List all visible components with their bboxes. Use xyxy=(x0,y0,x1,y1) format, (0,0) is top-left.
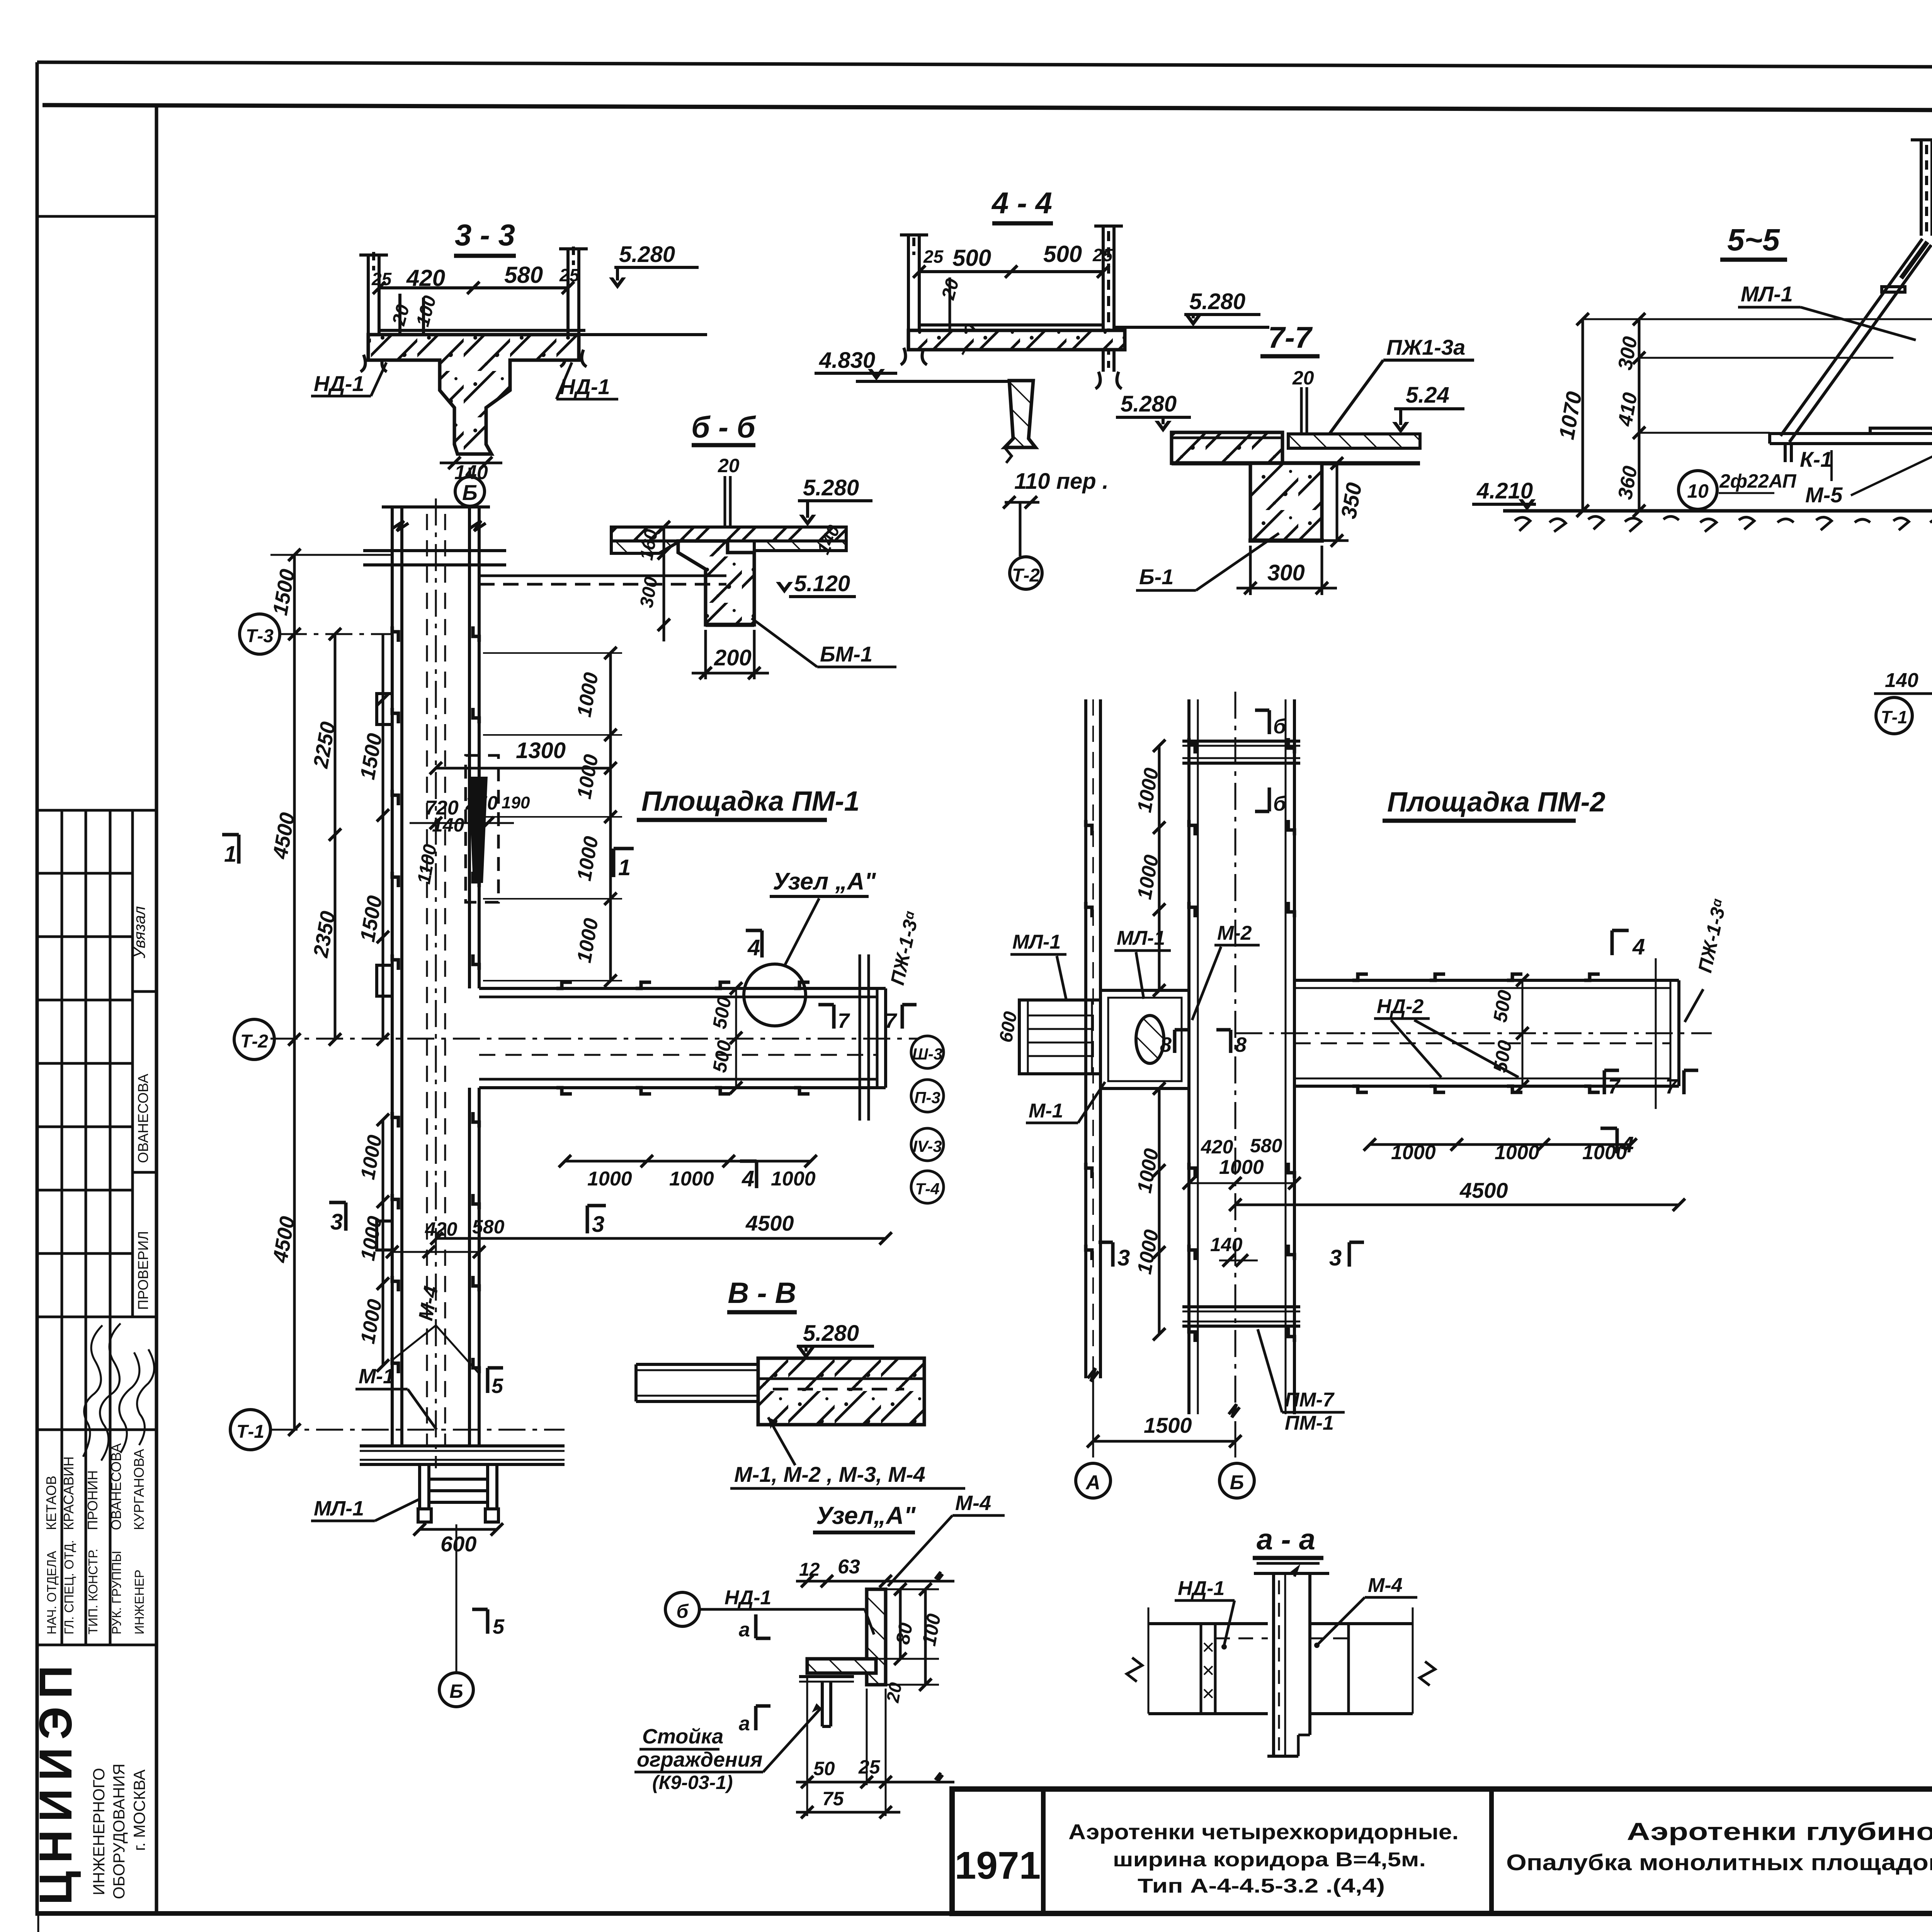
svg-text:Т-1: Т-1 xyxy=(236,1422,264,1442)
svg-text:А: А xyxy=(1085,1471,1100,1494)
svg-text:190: 190 xyxy=(502,793,530,812)
svg-text:ширина коридора В=4,5м.: ширина коридора В=4,5м. xyxy=(1113,1849,1426,1871)
svg-text:ОВАНЕСОВА: ОВАНЕСОВА xyxy=(108,1443,124,1530)
svg-text:420: 420 xyxy=(425,1218,457,1240)
svg-text:7: 7 xyxy=(838,1009,850,1032)
svg-text:Б: Б xyxy=(449,1680,463,1702)
svg-text:580: 580 xyxy=(1250,1135,1282,1156)
svg-text:Б: Б xyxy=(462,480,478,505)
svg-text:М-5: М-5 xyxy=(1805,483,1843,507)
svg-text:М-4: М-4 xyxy=(1368,1574,1403,1597)
svg-text:1: 1 xyxy=(224,842,236,867)
svg-text:Стойка: Стойка xyxy=(642,1725,723,1748)
svg-text:Б-1: Б-1 xyxy=(1139,565,1173,589)
svg-text:25: 25 xyxy=(559,265,580,285)
svg-text:5.120: 5.120 xyxy=(794,571,850,596)
svg-text:М-4: М-4 xyxy=(955,1492,991,1515)
svg-text:ГЛ. СПЕЦ. ОТД.: ГЛ. СПЕЦ. ОТД. xyxy=(62,1540,76,1634)
svg-text:НАЧ. ОТДЕЛА: НАЧ. ОТДЕЛА xyxy=(44,1551,59,1634)
svg-text:20: 20 xyxy=(718,455,740,476)
svg-text:20: 20 xyxy=(1292,367,1314,389)
svg-text:а: а xyxy=(739,1619,750,1641)
svg-text:75: 75 xyxy=(822,1788,844,1810)
svg-text:Узел „А": Узел „А" xyxy=(773,868,876,895)
svg-text:Т-2: Т-2 xyxy=(240,1031,268,1052)
svg-text:10: 10 xyxy=(1687,480,1709,502)
svg-text:7: 7 xyxy=(885,1009,898,1032)
svg-text:ПРОНИН: ПРОНИН xyxy=(85,1470,100,1530)
svg-text:1000: 1000 xyxy=(669,1168,714,1190)
svg-text:б: б xyxy=(677,1600,689,1622)
svg-text:Т-3: Т-3 xyxy=(246,626,274,646)
svg-text:г. МОСКВА: г. МОСКВА xyxy=(130,1769,148,1851)
svg-text:КУРГАНОВА: КУРГАНОВА xyxy=(131,1449,147,1530)
svg-text:80: 80 xyxy=(892,1621,917,1646)
svg-text:IV-3: IV-3 xyxy=(913,1137,942,1155)
svg-text:3: 3 xyxy=(1329,1245,1342,1270)
svg-text:25: 25 xyxy=(923,247,944,267)
svg-text:М-1, М-2 , М-3, М-4: М-1, М-2 , М-3, М-4 xyxy=(734,1462,925,1486)
svg-text:5~5: 5~5 xyxy=(1727,223,1780,257)
svg-text:ОВАНЕСОВА: ОВАНЕСОВА xyxy=(135,1074,151,1163)
svg-text:420: 420 xyxy=(406,265,445,291)
svg-text:5.280: 5.280 xyxy=(619,242,675,267)
svg-text:РУК. ГРУППЫ: РУК. ГРУППЫ xyxy=(109,1551,124,1634)
svg-text:5.280: 5.280 xyxy=(803,475,859,500)
svg-text:420: 420 xyxy=(1201,1136,1233,1158)
svg-text:1971: 1971 xyxy=(955,1844,1041,1887)
svg-text:Т-2: Т-2 xyxy=(1012,565,1040,586)
svg-text:В - В: В - В xyxy=(728,1277,796,1310)
svg-text:7-7: 7-7 xyxy=(1268,320,1313,354)
svg-text:НД-1: НД-1 xyxy=(314,371,364,396)
svg-text:М-2: М-2 xyxy=(1217,922,1252,944)
svg-text:140: 140 xyxy=(1885,669,1918,692)
svg-text:П-3: П-3 xyxy=(914,1088,940,1107)
svg-text:25: 25 xyxy=(371,269,392,289)
svg-text:3 - 3: 3 - 3 xyxy=(455,218,515,252)
svg-text:ИНЖЕНЕРНОГО: ИНЖЕНЕРНОГО xyxy=(90,1768,108,1895)
svg-text:2ф22АП: 2ф22АП xyxy=(1719,470,1797,492)
svg-text:ОБОРУДОВАНИЯ: ОБОРУДОВАНИЯ xyxy=(110,1764,128,1899)
svg-text:НД-1: НД-1 xyxy=(724,1587,771,1609)
svg-text:1500: 1500 xyxy=(1144,1413,1192,1437)
svg-text:КРАСАВИН: КРАСАВИН xyxy=(61,1456,77,1530)
svg-text:ПЖ1-3а: ПЖ1-3а xyxy=(1386,335,1465,359)
svg-text:25: 25 xyxy=(858,1756,881,1778)
svg-text:8: 8 xyxy=(1235,1033,1247,1056)
svg-text:МЛ-1: МЛ-1 xyxy=(1117,927,1165,949)
svg-text:600: 600 xyxy=(440,1532,476,1556)
svg-text:4.830: 4.830 xyxy=(819,348,875,373)
svg-text:200: 200 xyxy=(714,645,752,670)
svg-text:580: 580 xyxy=(504,262,543,288)
svg-text:М-1: М-1 xyxy=(1029,1100,1063,1122)
svg-text:БМ-1: БМ-1 xyxy=(820,642,872,666)
svg-text:ПМ-1: ПМ-1 xyxy=(1285,1412,1334,1434)
svg-text:5.280: 5.280 xyxy=(1189,289,1245,314)
svg-text:250: 250 xyxy=(465,792,498,814)
svg-text:3: 3 xyxy=(330,1209,343,1235)
svg-text:Аэротенки глубиной 4,4 м.: Аэротенки глубиной 4,4 м. xyxy=(1627,1818,1932,1845)
svg-text:4: 4 xyxy=(742,1166,754,1191)
svg-text:140: 140 xyxy=(1210,1234,1243,1255)
svg-text:5: 5 xyxy=(493,1615,505,1638)
svg-text:б: б xyxy=(1273,715,1287,738)
svg-text:5.280: 5.280 xyxy=(1121,391,1177,417)
svg-text:500: 500 xyxy=(952,245,991,271)
svg-text:МЛ-1: МЛ-1 xyxy=(1012,931,1061,953)
svg-text:4 - 4: 4 - 4 xyxy=(991,186,1052,220)
svg-text:МЛ-1: МЛ-1 xyxy=(314,1497,364,1520)
svg-text:3: 3 xyxy=(592,1212,604,1237)
svg-text:(К9-03-1): (К9-03-1) xyxy=(652,1772,733,1793)
svg-text:1300: 1300 xyxy=(516,738,566,763)
svg-text:Аэротенки четырехкоридорные.: Аэротенки четырехкоридорные. xyxy=(1068,1820,1459,1844)
svg-text:300: 300 xyxy=(1267,560,1305,585)
svg-text:4: 4 xyxy=(747,935,760,960)
svg-text:ограждения: ограждения xyxy=(637,1748,762,1771)
svg-text:Т-1: Т-1 xyxy=(1881,707,1908,727)
svg-text:4500: 4500 xyxy=(1459,1178,1508,1202)
svg-text:5.280: 5.280 xyxy=(803,1321,859,1346)
svg-text:4500: 4500 xyxy=(745,1211,794,1235)
svg-text:1000: 1000 xyxy=(1219,1156,1264,1179)
svg-text:1000: 1000 xyxy=(771,1168,816,1190)
svg-text:МЛ-1: МЛ-1 xyxy=(1741,282,1793,306)
svg-text:б - б: б - б xyxy=(691,410,756,444)
svg-text:Б: Б xyxy=(1230,1471,1244,1494)
svg-text:НД-1: НД-1 xyxy=(1178,1577,1225,1600)
svg-text:КЕТАОВ: КЕТАОВ xyxy=(43,1476,59,1530)
svg-text:ИНЖЕНЕР: ИНЖЕНЕР xyxy=(132,1570,146,1634)
svg-text:110 пер .: 110 пер . xyxy=(1014,469,1109,494)
svg-text:1000: 1000 xyxy=(587,1168,632,1190)
svg-text:7: 7 xyxy=(1608,1075,1621,1098)
svg-text:63: 63 xyxy=(838,1556,860,1578)
svg-text:НД-2: НД-2 xyxy=(1377,995,1423,1018)
svg-text:ТИП. КОНСТР.: ТИП. КОНСТР. xyxy=(86,1549,100,1634)
svg-text:1: 1 xyxy=(618,855,631,880)
svg-text:Площадка ПМ-2: Площадка ПМ-2 xyxy=(1387,787,1605,818)
svg-text:3: 3 xyxy=(1117,1245,1130,1270)
svg-text:ПРОВЕРИЛ: ПРОВЕРИЛ xyxy=(135,1231,151,1310)
svg-text:Площадка ПМ-1: Площадка ПМ-1 xyxy=(641,786,860,817)
svg-text:НД-1: НД-1 xyxy=(560,374,610,399)
svg-text:1000: 1000 xyxy=(1495,1141,1539,1164)
svg-text:К-1: К-1 xyxy=(1800,447,1832,471)
svg-text:25: 25 xyxy=(1092,245,1113,265)
svg-text:5: 5 xyxy=(492,1374,503,1398)
svg-text:500: 500 xyxy=(1043,241,1082,267)
svg-text:Узел„А": Узел„А" xyxy=(816,1502,916,1529)
svg-text:1000: 1000 xyxy=(1582,1141,1627,1164)
svg-text:Ш-3: Ш-3 xyxy=(912,1045,942,1063)
svg-text:а: а xyxy=(739,1713,750,1735)
svg-text:140: 140 xyxy=(432,814,464,836)
svg-text:а - а: а - а xyxy=(1257,1523,1315,1556)
svg-text:Тип А-4-4.5-3.2 .(4,4): Тип А-4-4.5-3.2 .(4,4) xyxy=(1138,1875,1385,1897)
svg-text:580: 580 xyxy=(472,1216,505,1238)
svg-text:б: б xyxy=(1273,792,1287,815)
svg-text:ПМ-7: ПМ-7 xyxy=(1285,1389,1335,1411)
svg-text:4: 4 xyxy=(1632,934,1645,959)
svg-text:50: 50 xyxy=(813,1758,835,1779)
svg-text:8: 8 xyxy=(1160,1033,1172,1056)
svg-text:Увязал: Увязал xyxy=(130,906,148,959)
svg-text:М-1: М-1 xyxy=(359,1365,395,1388)
svg-text:Т-4: Т-4 xyxy=(915,1180,940,1198)
svg-text:7: 7 xyxy=(1665,1075,1678,1098)
svg-text:4.210: 4.210 xyxy=(1476,478,1533,503)
svg-text:Опалубка монолитных площадок: Опалубка монолитных площадок ПМ-1; ПМ-2,… xyxy=(1506,1850,1932,1875)
svg-text:1000: 1000 xyxy=(1391,1141,1436,1164)
svg-text:5.24: 5.24 xyxy=(1406,383,1449,408)
